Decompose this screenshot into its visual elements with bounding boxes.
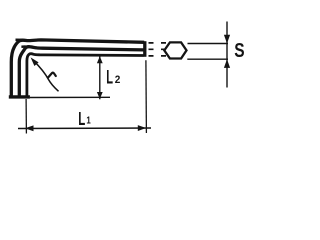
svg-text:L: L	[106, 66, 113, 88]
svg-text:2: 2	[115, 74, 121, 85]
svg-text:S: S	[234, 39, 244, 62]
svg-text:L: L	[78, 109, 85, 129]
svg-text:1: 1	[86, 115, 90, 126]
